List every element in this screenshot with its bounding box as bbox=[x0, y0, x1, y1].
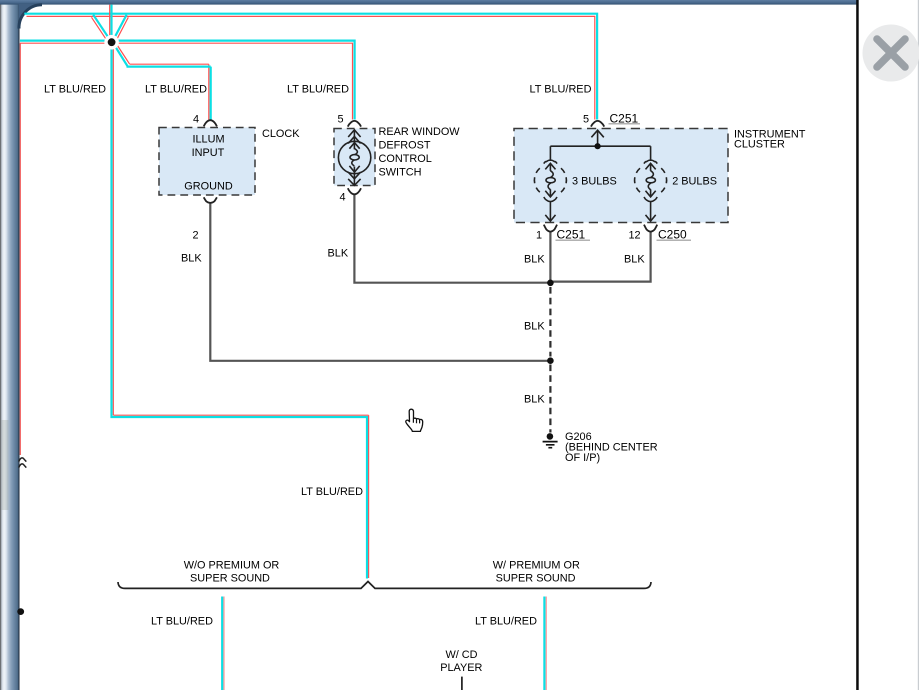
svg-text:LT BLU/RED: LT BLU/RED bbox=[530, 84, 592, 96]
wire BLK dashed S2 to ground G206 bbox=[549, 365, 551, 433]
svg-text:5: 5 bbox=[583, 113, 589, 125]
cluster pin 1 connector arc bbox=[544, 225, 557, 232]
svg-text:CLUSTER: CLUSTER bbox=[734, 138, 785, 150]
wire trunk LT BLU/RED red tracer above junction bbox=[109, 5, 111, 37]
wire W/ CD player stub (black) bbox=[461, 677, 463, 690]
svg-text:4: 4 bbox=[340, 192, 346, 204]
cluster pin 12 connector arc bbox=[644, 225, 657, 232]
svg-text:BLK: BLK bbox=[524, 320, 545, 332]
svg-text:C250: C250 bbox=[658, 227, 687, 241]
wire junction diagonal NE (red tracer) bbox=[116, 17, 129, 41]
svg-text:BLK: BLK bbox=[181, 252, 202, 264]
svg-text:PLAYER: PLAYER bbox=[440, 662, 482, 674]
svg-text:BLK: BLK bbox=[328, 248, 349, 260]
close (X) button bbox=[863, 25, 919, 82]
window top border bar bbox=[0, 0, 857, 5]
wire trunk LT BLU/RED red tracer below junction bbox=[113, 48, 368, 579]
svg-text:SUPER SOUND: SUPER SOUND bbox=[190, 573, 270, 585]
wire lower-right LT BLU/RED below brace (cyan) bbox=[543, 597, 545, 690]
wire W2 LT BLU/RED: second rail to defrost switch pin 5 (cyan) bbox=[20, 41, 355, 120]
wire BLK dashed S1 to S2 bbox=[549, 287, 551, 357]
clock component box bbox=[159, 128, 255, 196]
svg-text:LT BLU/RED: LT BLU/RED bbox=[145, 84, 207, 96]
cluster pin 5 connector arc bbox=[591, 121, 604, 127]
svg-text:W/ PREMIUM OR: W/ PREMIUM OR bbox=[493, 560, 580, 572]
defrost switch component box bbox=[334, 129, 375, 186]
svg-text:4: 4 bbox=[193, 113, 199, 125]
svg-text:5: 5 bbox=[338, 113, 344, 125]
svg-text:LT BLU/RED: LT BLU/RED bbox=[151, 616, 213, 628]
svg-text:BLK: BLK bbox=[524, 254, 545, 266]
underline C250 bbox=[657, 239, 692, 241]
wire BLK from cluster pin 12 to splice S1 bbox=[553, 231, 651, 281]
svg-text:LT BLU/RED: LT BLU/RED bbox=[44, 84, 106, 96]
wire clock branch LT BLU/RED (cyan) bbox=[114, 44, 211, 120]
right window edge line bbox=[918, 0, 919, 690]
svg-text:SWITCH: SWITCH bbox=[379, 167, 422, 179]
svg-text:12: 12 bbox=[629, 229, 641, 241]
option split brace bbox=[118, 582, 651, 589]
wire W1 LT BLU/RED: top rail to instrument cluster pin 5 (red tracer) bbox=[27, 16, 595, 119]
wire break mark upper bbox=[19, 458, 27, 462]
wire lower-left LT BLU/RED below brace (red tracer) bbox=[223, 597, 225, 690]
junction dot main halo bbox=[104, 35, 119, 50]
wire break mark lower bbox=[19, 464, 27, 468]
instrument cluster component box bbox=[514, 129, 728, 223]
svg-text:REAR WINDOW: REAR WINDOW bbox=[379, 126, 461, 138]
wire left page-edge LT BLU/RED vertical (red tracer only) bbox=[19, 43, 21, 455]
underline C251 top bbox=[609, 123, 641, 125]
cluster bus junction dot bbox=[595, 143, 601, 149]
window rounded corner gusset bbox=[18, 4, 42, 29]
svg-text:LT BLU/RED: LT BLU/RED bbox=[287, 84, 349, 96]
splice S2 junction dot bbox=[547, 357, 554, 364]
wire trunk LT BLU/RED cyan: top to brace bbox=[110, 5, 367, 579]
defrost switch pin 4 connector arc bbox=[348, 188, 361, 194]
wire lower-right LT BLU/RED below brace (red tracer) bbox=[545, 597, 547, 690]
ground G206 symbol bbox=[543, 433, 558, 448]
svg-text:INPUT: INPUT bbox=[192, 147, 225, 159]
svg-text:OF I/P): OF I/P) bbox=[565, 452, 600, 464]
svg-text:SUPER SOUND: SUPER SOUND bbox=[496, 573, 576, 585]
wire W1 LT BLU/RED: top rail to instrument cluster pin 5 (cyan) bbox=[24, 14, 597, 120]
svg-text:1: 1 bbox=[536, 229, 542, 241]
svg-text:C251: C251 bbox=[610, 111, 639, 125]
wire W2 LT BLU/RED: second rail to defrost switch pin 5 (red tracer) bbox=[20, 43, 353, 119]
mouse cursor (hand pointer) bbox=[406, 409, 423, 431]
wire junction diagonal NE (cyan) bbox=[113, 15, 126, 40]
underline C251 bottom bbox=[556, 239, 591, 241]
defrost switch pin 5 connector arc bbox=[348, 121, 361, 127]
wire junction diagonal NW (red tracer) bbox=[92, 17, 108, 41]
cluster feed arrow and bus bbox=[550, 130, 650, 161]
svg-text:CONTROL: CONTROL bbox=[379, 153, 432, 165]
clock ground pin connector arc bbox=[204, 197, 217, 203]
junction dot main (trunk / rails) bbox=[108, 38, 116, 46]
svg-text:BLK: BLK bbox=[524, 394, 545, 406]
svg-text:W/ CD: W/ CD bbox=[445, 649, 477, 661]
bulb symbol B2 (2 bulbs) bbox=[635, 160, 667, 221]
svg-text:C251: C251 bbox=[557, 227, 586, 241]
svg-text:2: 2 bbox=[193, 229, 199, 241]
wire BLK from defrost switch pin 4 to splice S1 bbox=[354, 195, 549, 283]
right panel divider line bbox=[856, 0, 859, 690]
svg-text:BLK: BLK bbox=[624, 254, 645, 266]
wire junction diagonal SE to clock branch (red tracer) bbox=[116, 43, 209, 120]
defrost switch indicator lamp symbol bbox=[338, 130, 370, 186]
svg-text:LT BLU/RED: LT BLU/RED bbox=[475, 616, 537, 628]
svg-text:ILLUM: ILLUM bbox=[192, 134, 224, 146]
wire lower-left LT BLU/RED below brace (cyan) bbox=[221, 597, 223, 690]
svg-text:3 BULBS: 3 BULBS bbox=[572, 175, 617, 187]
svg-text:GROUND: GROUND bbox=[184, 181, 233, 193]
svg-text:CLOCK: CLOCK bbox=[262, 128, 300, 140]
svg-text:DEFROST: DEFROST bbox=[379, 139, 431, 151]
window left edge bar bbox=[0, 0, 20, 690]
wire BLK from clock ground to splice S2 bbox=[210, 203, 548, 361]
junction dot on left page edge bbox=[17, 608, 24, 615]
bulb symbol B1 (3 bulbs) bbox=[534, 160, 566, 221]
svg-text:2 BULBS: 2 BULBS bbox=[672, 175, 717, 187]
left bar smudge bbox=[2, 420, 9, 510]
wire junction diagonal NW (cyan) bbox=[93, 15, 110, 41]
wire BLK from cluster pin 1 to splice S1 bbox=[549, 231, 551, 280]
clock pin 4 connector arc bbox=[204, 120, 217, 126]
splice S1 junction dot bbox=[547, 280, 554, 287]
svg-text:W/O PREMIUM OR: W/O PREMIUM OR bbox=[184, 560, 280, 572]
svg-text:LT BLU/RED: LT BLU/RED bbox=[301, 486, 363, 498]
